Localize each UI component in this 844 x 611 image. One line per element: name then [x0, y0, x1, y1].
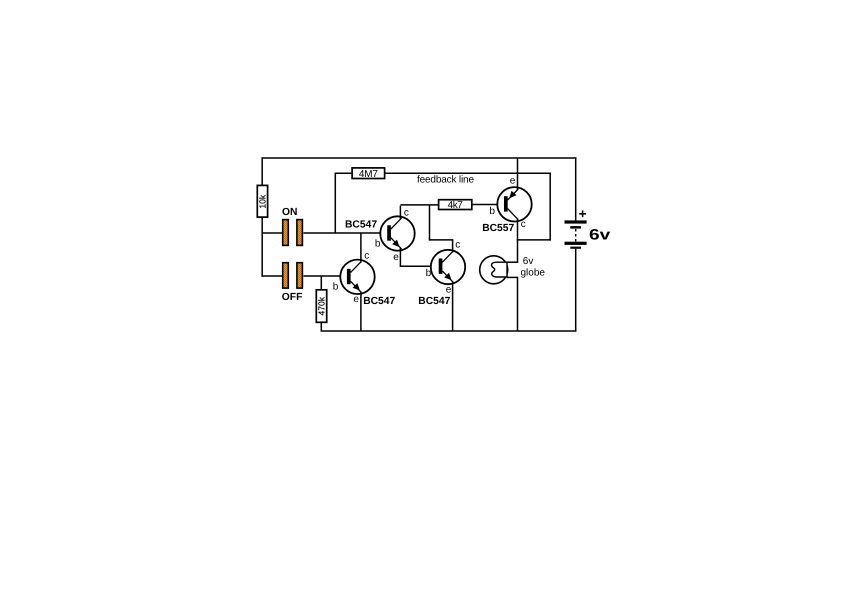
touch pad ON left plate — [283, 220, 289, 246]
wire feedback right vertical — [549, 173, 551, 241]
svg-text:c: c — [455, 240, 460, 251]
wire Q2 emitter down — [360, 292, 362, 332]
svg-text:6v: 6v — [523, 256, 534, 267]
transistor U1 BC557 — [497, 187, 531, 221]
wire top rail — [262, 157, 577, 159]
svg-text:b: b — [426, 268, 432, 279]
wire feedback line — [385, 172, 551, 174]
svg-text:e: e — [446, 284, 452, 295]
wire ON row left — [262, 232, 283, 234]
touch pad OFF left plate — [283, 263, 289, 288]
transistor Q1 BC547 upper-middle — [380, 216, 414, 250]
wire Q3 emitter down — [452, 281, 454, 332]
svg-text:10k: 10k — [258, 194, 268, 208]
resistor 10k — [257, 185, 267, 217]
svg-text:4M7: 4M7 — [359, 169, 378, 180]
svg-text:c: c — [521, 219, 526, 230]
svg-text:feedback line: feedback line — [417, 174, 474, 185]
transistor Q3 BC547 lower-right — [431, 250, 465, 284]
svg-text:e: e — [393, 252, 399, 263]
svg-text:c: c — [364, 251, 369, 262]
label battery plus — [579, 210, 586, 217]
wire globe top — [507, 261, 519, 263]
wire bottom rail — [321, 330, 577, 332]
svg-text:4k7: 4k7 — [448, 200, 464, 211]
touch pad ON right plate — [297, 220, 303, 246]
wire ON row right — [304, 232, 388, 234]
svg-text:b: b — [489, 206, 495, 217]
svg-text:470k: 470k — [317, 296, 327, 315]
wire BC557 collector down — [517, 219, 519, 263]
svg-text:ON: ON — [282, 207, 297, 218]
resistor 470k — [316, 276, 326, 332]
svg-text:BC547: BC547 — [363, 296, 395, 307]
wire left vertical upper — [261, 157, 263, 185]
wire Q1 emitter down — [399, 248, 401, 267]
wire battery negative lead — [575, 249, 577, 332]
lamp 6v globe — [480, 256, 508, 284]
wire Q1 emitter to Q3 base — [400, 265, 439, 267]
svg-text:b: b — [375, 238, 381, 249]
wire 4M7 left — [335, 172, 353, 174]
svg-text:BC547: BC547 — [418, 296, 450, 307]
wire 4M7 drop — [334, 173, 336, 234]
wire Q1 collector up — [399, 206, 401, 219]
wire junction drop to Q3 collector — [429, 205, 431, 241]
touch pad OFF right plate — [297, 263, 303, 288]
wire globe bottom — [507, 276, 519, 278]
svg-text:e: e — [353, 294, 359, 305]
wire OFF row right — [304, 275, 348, 277]
wire globe bottom down — [517, 277, 519, 331]
wire Q1 collector horizontal — [400, 204, 438, 206]
resistor 4M7 — [352, 168, 385, 180]
wire battery positive lead — [575, 157, 577, 220]
wire left vertical lower — [261, 217, 263, 277]
svg-text:c: c — [404, 207, 409, 218]
svg-text:BC557: BC557 — [482, 223, 514, 234]
svg-text:e: e — [510, 175, 516, 186]
wire Q2 collector up — [360, 233, 362, 263]
transistor Q2 BC547 bottom-left — [340, 260, 374, 294]
battery B1 6v — [565, 220, 587, 248]
resistor 4k7 — [439, 200, 472, 211]
svg-text:OFF: OFF — [282, 292, 303, 303]
svg-text:b: b — [333, 281, 339, 292]
wire feedback bottom — [517, 239, 551, 241]
wire 4k7 to BC557 base — [472, 204, 504, 206]
wire OFF row left — [262, 275, 283, 277]
wire to Q3 collector horizontal — [430, 239, 454, 241]
svg-text:BC547: BC547 — [345, 219, 377, 230]
svg-text:globe: globe — [521, 267, 546, 278]
svg-text:6v: 6v — [589, 226, 611, 243]
wire BC557 emitter up — [517, 158, 519, 190]
wire Q3 collector up — [452, 240, 454, 253]
